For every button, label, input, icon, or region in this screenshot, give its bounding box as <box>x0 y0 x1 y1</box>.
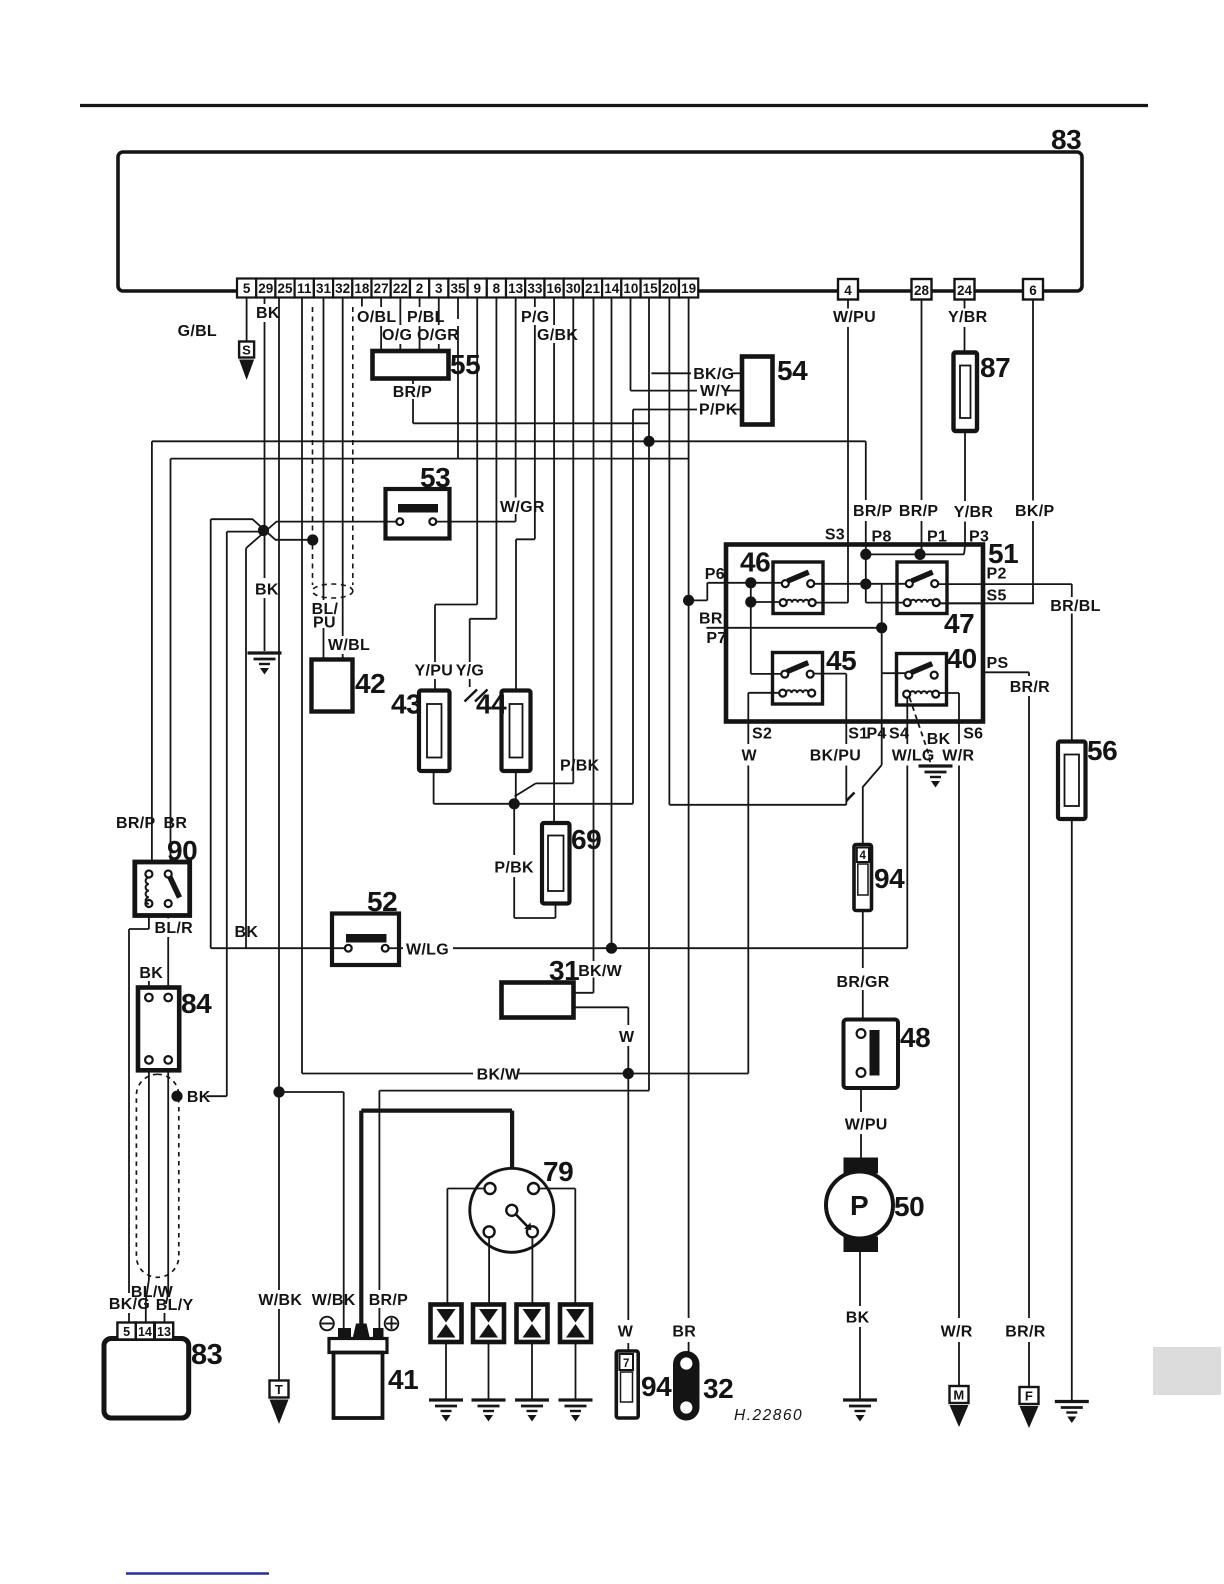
svg-text:BK/W: BK/W <box>578 963 622 980</box>
svg-text:51: 51 <box>988 538 1018 569</box>
svg-text:BR/BL: BR/BL <box>1050 598 1100 615</box>
svg-text:M: M <box>953 1388 964 1403</box>
svg-text:6: 6 <box>1029 283 1037 298</box>
svg-text:9: 9 <box>473 281 481 296</box>
svg-text:S4: S4 <box>889 726 909 743</box>
svg-text:Y/PU: Y/PU <box>415 663 454 680</box>
svg-text:BK/P: BK/P <box>1015 503 1054 520</box>
svg-text:83: 83 <box>191 1339 223 1371</box>
svg-text:3: 3 <box>435 281 443 296</box>
svg-text:7: 7 <box>623 1358 630 1370</box>
svg-text:69: 69 <box>571 824 601 855</box>
svg-text:BR: BR <box>672 1324 696 1341</box>
svg-text:29: 29 <box>258 281 273 296</box>
svg-text:94: 94 <box>641 1371 672 1402</box>
svg-text:52: 52 <box>367 886 397 917</box>
svg-text:94: 94 <box>874 863 905 894</box>
svg-text:47: 47 <box>944 608 974 639</box>
svg-text:33: 33 <box>527 281 543 296</box>
svg-text:P7: P7 <box>706 630 726 647</box>
svg-text:15: 15 <box>643 281 659 296</box>
svg-text:90: 90 <box>167 835 197 866</box>
svg-text:50: 50 <box>894 1191 924 1222</box>
svg-text:BL/R: BL/R <box>155 920 194 937</box>
svg-text:30: 30 <box>566 281 581 296</box>
svg-text:W: W <box>742 748 758 765</box>
svg-text:BR/P: BR/P <box>116 815 155 832</box>
svg-text:W/PU: W/PU <box>833 309 876 326</box>
svg-text:42: 42 <box>355 668 385 699</box>
svg-text:BK: BK <box>187 1089 211 1106</box>
svg-text:5: 5 <box>243 281 251 296</box>
svg-text:W/BK: W/BK <box>312 1292 356 1309</box>
svg-text:19: 19 <box>681 281 696 296</box>
svg-text:BR/R: BR/R <box>1010 679 1050 696</box>
svg-text:31: 31 <box>316 281 332 296</box>
svg-text:13: 13 <box>157 1325 171 1339</box>
svg-text:44: 44 <box>476 689 507 720</box>
svg-text:BK: BK <box>139 965 163 982</box>
svg-text:BR: BR <box>699 611 723 628</box>
svg-text:35: 35 <box>450 281 466 296</box>
svg-text:S2: S2 <box>752 726 772 743</box>
svg-text:18: 18 <box>354 281 370 296</box>
svg-text:P/BK: P/BK <box>494 860 534 877</box>
svg-text:W/Y: W/Y <box>700 383 731 400</box>
svg-text:W: W <box>618 1324 634 1341</box>
svg-text:BR/P: BR/P <box>899 503 938 520</box>
svg-text:W/R: W/R <box>942 748 974 765</box>
svg-text:11: 11 <box>297 281 312 296</box>
svg-text:BK: BK <box>846 1310 870 1327</box>
svg-text:14: 14 <box>604 281 620 296</box>
svg-text:28: 28 <box>914 283 930 298</box>
svg-text:56: 56 <box>1087 735 1117 766</box>
svg-text:W/LG: W/LG <box>406 942 449 959</box>
svg-text:4: 4 <box>860 850 867 862</box>
svg-text:25: 25 <box>278 281 294 296</box>
svg-text:PU: PU <box>313 615 336 632</box>
svg-text:8: 8 <box>493 281 501 296</box>
svg-text:W: W <box>619 1029 635 1046</box>
svg-text:O/BL: O/BL <box>357 309 396 326</box>
svg-text:BR: BR <box>164 815 188 832</box>
svg-text:O/G: O/G <box>382 327 412 344</box>
svg-text:BR/P: BR/P <box>853 503 892 520</box>
svg-text:Y/G: Y/G <box>456 663 484 680</box>
svg-text:87: 87 <box>980 352 1010 383</box>
svg-text:16: 16 <box>547 281 563 296</box>
svg-text:41: 41 <box>388 1364 418 1395</box>
svg-text:P: P <box>850 1190 869 1221</box>
svg-text:BK/PU: BK/PU <box>810 748 861 765</box>
svg-text:43: 43 <box>391 689 421 720</box>
svg-text:48: 48 <box>900 1022 930 1053</box>
svg-text:10: 10 <box>623 281 638 296</box>
svg-text:31: 31 <box>549 955 579 986</box>
svg-text:S5: S5 <box>987 588 1007 605</box>
svg-text:P8: P8 <box>872 529 892 546</box>
svg-text:46: 46 <box>740 547 770 578</box>
svg-text:BK/G: BK/G <box>693 366 734 383</box>
svg-text:32: 32 <box>335 281 350 296</box>
svg-text:55: 55 <box>450 349 480 380</box>
svg-text:BK: BK <box>927 731 951 748</box>
svg-text:14: 14 <box>138 1325 152 1339</box>
svg-text:84: 84 <box>181 988 212 1019</box>
svg-text:T: T <box>275 1382 283 1397</box>
svg-text:W/BL: W/BL <box>328 637 370 654</box>
svg-text:W/GR: W/GR <box>500 499 545 516</box>
svg-text:BR/R: BR/R <box>1005 1324 1045 1341</box>
svg-text:45: 45 <box>826 645 856 676</box>
svg-text:S3: S3 <box>825 527 845 544</box>
svg-text:G/BL: G/BL <box>178 323 217 340</box>
svg-text:S6: S6 <box>963 726 983 743</box>
svg-text:2: 2 <box>416 281 424 296</box>
svg-text:W/BK: W/BK <box>258 1292 302 1309</box>
svg-text:32: 32 <box>703 1373 733 1404</box>
svg-text:W/R: W/R <box>941 1324 973 1341</box>
svg-text:83: 83 <box>1051 124 1081 155</box>
svg-text:PS: PS <box>987 655 1009 672</box>
svg-text:BL/Y: BL/Y <box>156 1297 194 1314</box>
svg-text:P/G: P/G <box>521 309 549 326</box>
svg-text:21: 21 <box>585 281 601 296</box>
svg-text:24: 24 <box>957 283 973 298</box>
svg-text:20: 20 <box>662 281 677 296</box>
svg-text:BK: BK <box>256 305 280 322</box>
svg-text:F: F <box>1025 1389 1033 1404</box>
svg-text:H.22860: H.22860 <box>734 1407 803 1424</box>
svg-text:5: 5 <box>123 1325 130 1339</box>
svg-text:BR/GR: BR/GR <box>837 974 890 991</box>
svg-text:Y/BR: Y/BR <box>954 504 994 521</box>
svg-text:BR/P: BR/P <box>393 384 432 401</box>
svg-text:P2: P2 <box>987 566 1007 583</box>
svg-text:BK: BK <box>255 582 279 599</box>
svg-text:G/BK: G/BK <box>537 327 578 344</box>
svg-text:W/PU: W/PU <box>845 1117 888 1134</box>
svg-text:13: 13 <box>508 281 524 296</box>
svg-text:S1: S1 <box>848 726 868 743</box>
svg-text:22: 22 <box>393 281 408 296</box>
svg-text:27: 27 <box>374 281 389 296</box>
svg-text:BK: BK <box>235 924 259 941</box>
svg-text:BK/W: BK/W <box>477 1067 521 1084</box>
svg-text:79: 79 <box>543 1156 573 1187</box>
svg-text:54: 54 <box>777 355 808 386</box>
svg-text:4: 4 <box>844 283 852 298</box>
svg-text:53: 53 <box>420 462 450 493</box>
svg-text:P/PK: P/PK <box>699 402 738 419</box>
svg-text:40: 40 <box>947 643 977 674</box>
svg-text:O/GR: O/GR <box>417 327 459 344</box>
svg-text:P6: P6 <box>705 566 725 583</box>
svg-text:S: S <box>242 343 251 358</box>
svg-text:BR/P: BR/P <box>369 1292 408 1309</box>
svg-text:P4: P4 <box>867 726 887 743</box>
svg-text:Y/BR: Y/BR <box>948 309 988 326</box>
